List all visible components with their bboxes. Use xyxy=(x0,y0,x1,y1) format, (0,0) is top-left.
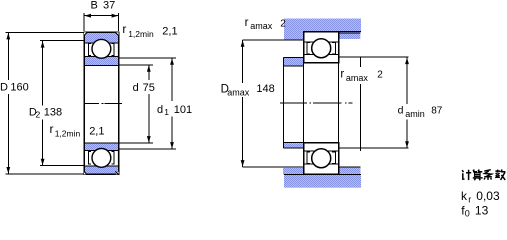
svg-text:2: 2 xyxy=(36,109,41,119)
svg-text:87: 87 xyxy=(431,105,443,116)
svg-text:1,2min: 1,2min xyxy=(128,29,154,39)
svg-text:2: 2 xyxy=(377,69,383,80)
svg-text:B: B xyxy=(91,0,98,11)
svg-text:0,03: 0,03 xyxy=(476,189,500,203)
svg-text:1: 1 xyxy=(164,107,169,117)
svg-text:d: d xyxy=(157,104,163,116)
svg-text:d: d xyxy=(398,105,404,117)
svg-text:37: 37 xyxy=(103,0,115,11)
svg-text:amax: amax xyxy=(227,88,250,98)
svg-text:2,1: 2,1 xyxy=(162,26,177,38)
svg-text:r: r xyxy=(468,194,471,204)
svg-text:101: 101 xyxy=(174,104,192,116)
svg-text:amin: amin xyxy=(405,109,425,119)
svg-text:2,1: 2,1 xyxy=(89,125,104,137)
svg-text:75: 75 xyxy=(143,82,155,94)
svg-text:amax: amax xyxy=(346,73,369,83)
svg-text:amax: amax xyxy=(250,21,273,31)
svg-text:13: 13 xyxy=(475,204,489,218)
svg-text:k: k xyxy=(461,189,468,203)
svg-text:r: r xyxy=(340,68,344,80)
svg-text:148: 148 xyxy=(256,83,274,95)
svg-text:0: 0 xyxy=(465,209,470,218)
svg-text:r: r xyxy=(122,22,126,36)
svg-text:138: 138 xyxy=(44,106,62,118)
svg-text:2: 2 xyxy=(280,18,286,29)
svg-text:D: D xyxy=(0,81,8,93)
svg-text:r: r xyxy=(245,17,249,29)
svg-text:160: 160 xyxy=(10,82,28,94)
svg-text:1,2min: 1,2min xyxy=(55,128,81,138)
svg-text:d: d xyxy=(133,82,139,94)
svg-text:r: r xyxy=(50,122,54,136)
